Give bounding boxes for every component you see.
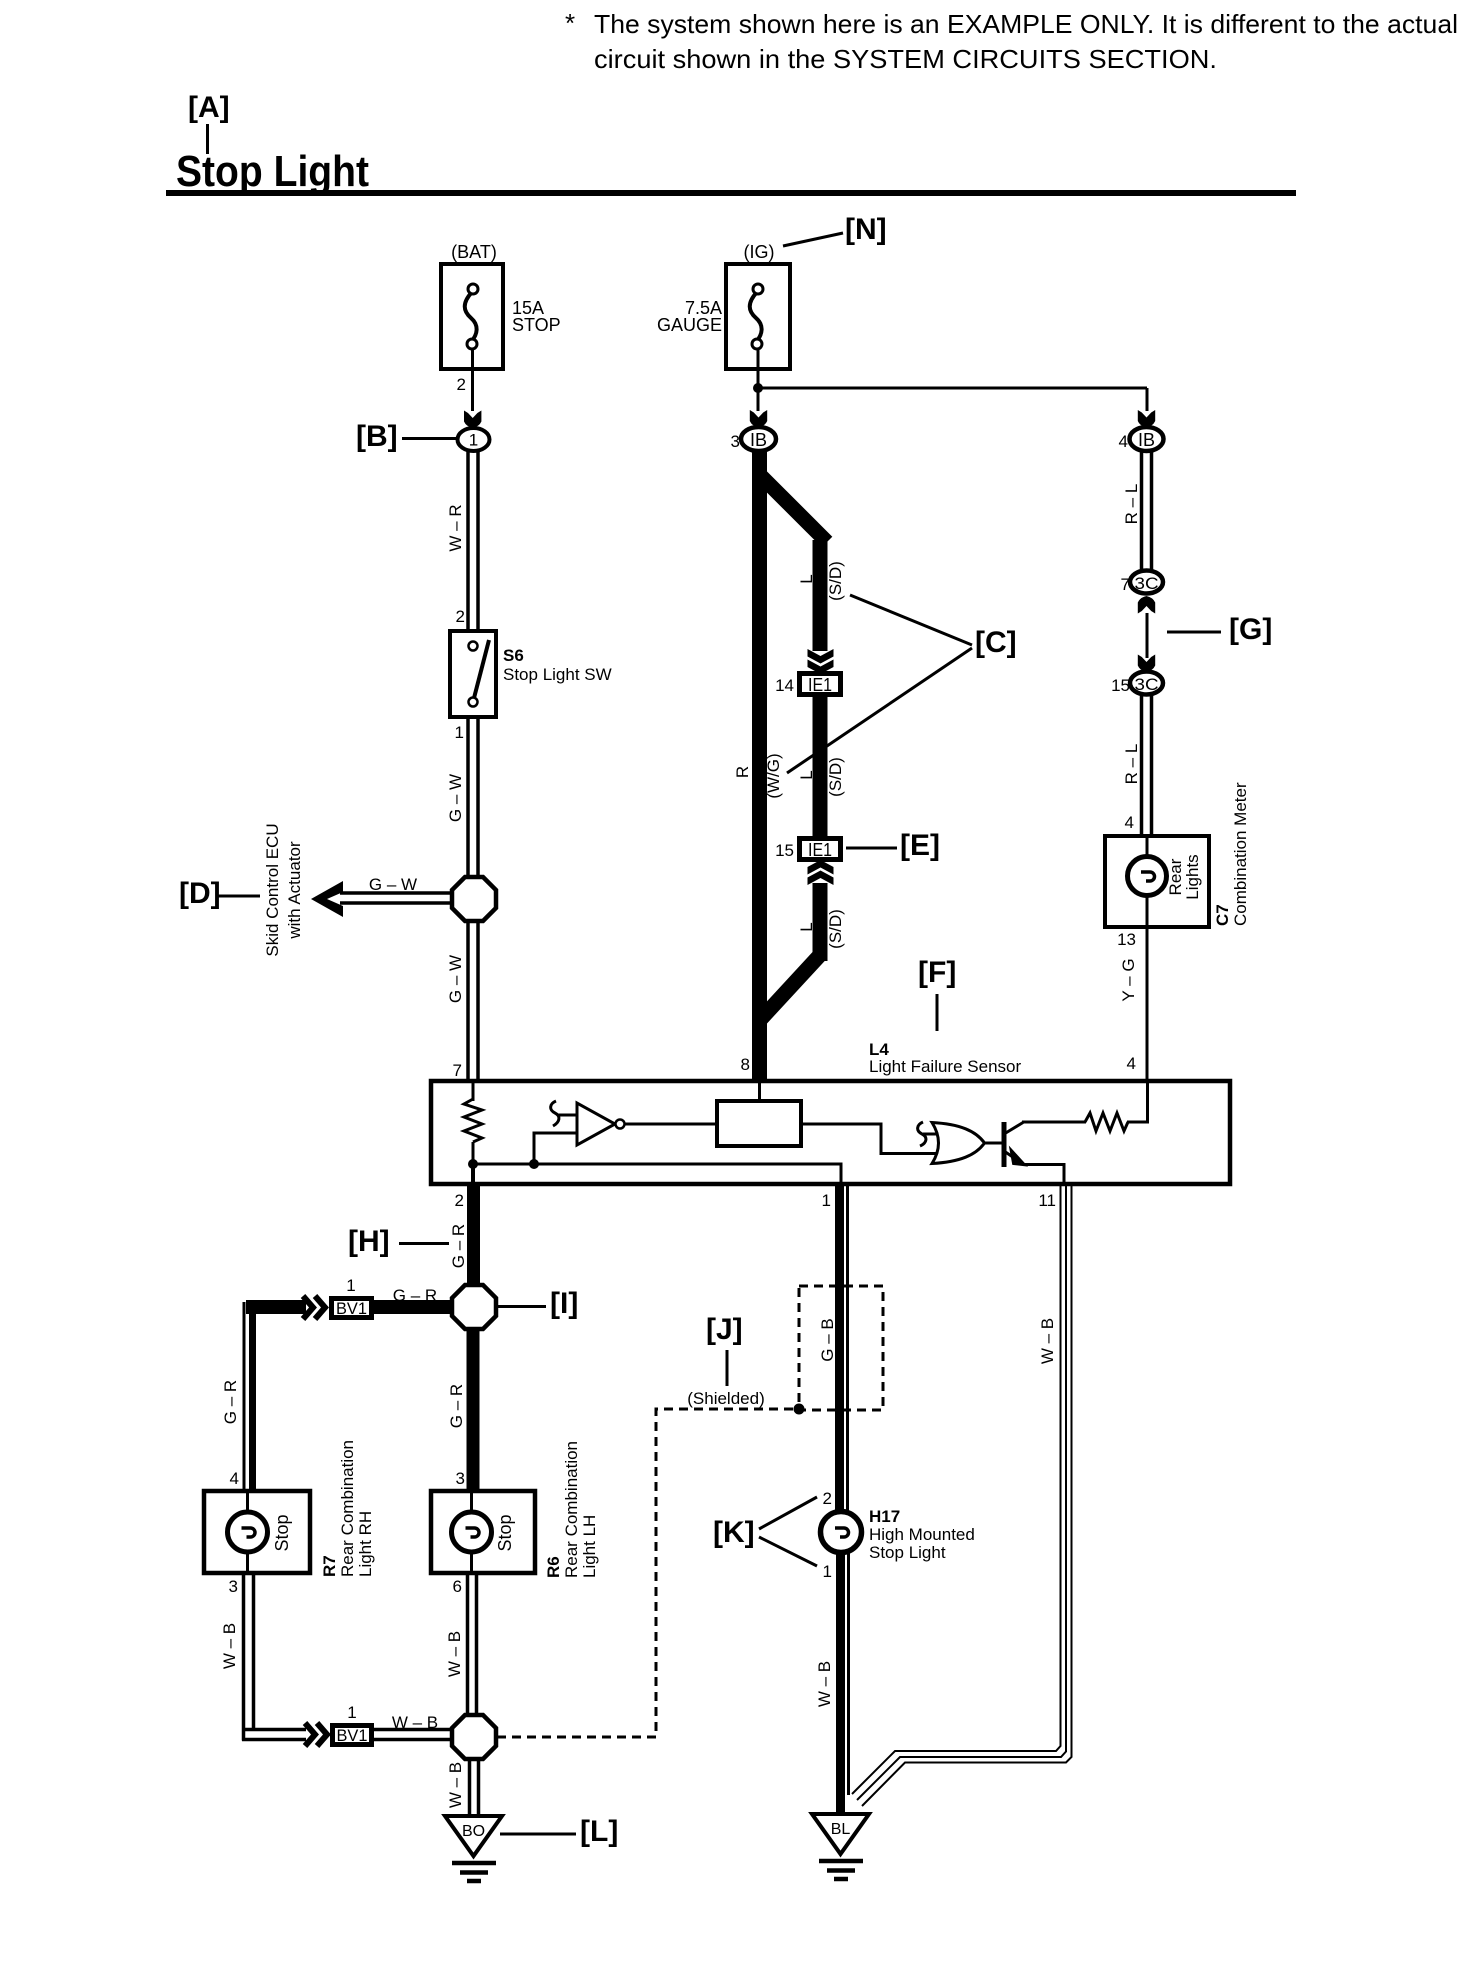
- connector 3C upper ellipse: [1130, 571, 1163, 594]
- label [E] pointer line: [846, 847, 897, 850]
- wire pin7 to resistor: [472, 1083, 475, 1101]
- switch S6 contacts: [469, 640, 490, 707]
- label [K] pointer lines: [759, 1497, 817, 1529]
- resistor R-out horizontal: [1085, 1113, 1128, 1131]
- fuse F1 box: [441, 264, 503, 369]
- connector 1 ellipse: [458, 428, 490, 451]
- wire W-R double from connector 1 to S6: [468, 451, 478, 633]
- label [L] pointer line: [500, 1833, 576, 1836]
- title underline: [166, 190, 1296, 196]
- svg-text:L: L: [797, 770, 816, 779]
- svg-text:1: 1: [347, 1703, 356, 1722]
- wire node A to pin 2: [471, 1164, 475, 1184]
- lamp H17 bulb: [821, 1512, 862, 1553]
- wire W-B triple from L4-11: [852, 1184, 1072, 1806]
- wire W-B double BV1 lower to junction I3: [374, 1730, 455, 1740]
- wire node A to pin 1: [473, 1164, 841, 1183]
- svg-text:G – B: G – B: [818, 1318, 837, 1361]
- wire W-B double corner to BV1 lower: [242, 1730, 306, 1740]
- wire R-L double from IB-4 to 3C-7: [1142, 451, 1152, 573]
- svg-text:G – R: G – R: [393, 1286, 437, 1305]
- wire resistor to node: [472, 1142, 475, 1164]
- wire resistor to pin 4: [1127, 1083, 1148, 1122]
- junction dot shield: [794, 1404, 805, 1415]
- svg-text:*: *: [565, 8, 575, 38]
- junction dot node B: [529, 1159, 539, 1169]
- wire emitter to pin 11: [1023, 1165, 1064, 1184]
- svg-text:[F]: [F]: [918, 956, 956, 989]
- svg-text:[I]: [I]: [550, 1287, 578, 1320]
- label [J] pointer line: [726, 1350, 729, 1386]
- svg-text:(S/D): (S/D): [826, 909, 845, 949]
- switch S6 box: [450, 631, 496, 717]
- svg-text:1: 1: [469, 431, 478, 450]
- svg-text:[A]: [A]: [188, 91, 230, 124]
- svg-text:W – B: W – B: [446, 1762, 465, 1808]
- svg-text:G – W: G – W: [446, 774, 465, 822]
- label [F] pointer line: [936, 994, 939, 1031]
- ground BO bars: [452, 1863, 496, 1881]
- svg-text:Stop: Stop: [272, 1514, 292, 1551]
- svg-text:(S/D): (S/D): [826, 757, 845, 797]
- wire fuse F2 output: [757, 348, 760, 411]
- svg-text:[L]: [L]: [580, 1815, 618, 1848]
- wire G-W double from junction I1 to sensor pin 7: [468, 920, 478, 1081]
- connector IE1 lower box: [797, 836, 843, 862]
- wire OR gate to transistor base: [984, 1142, 1002, 1145]
- svg-text:3C: 3C: [1135, 675, 1159, 694]
- wire squiggle to inverter: [557, 1114, 577, 1117]
- arrow to Skid Control ECU: [311, 881, 343, 917]
- svg-text:11: 11: [1038, 1191, 1056, 1210]
- flasher squiggle at OR gate: [918, 1122, 926, 1146]
- light failure sensor L4 box: [431, 1081, 1230, 1184]
- label [D] pointer line: [216, 895, 260, 898]
- svg-text:G – W: G – W: [369, 875, 417, 894]
- wire L (S/D) between IE1 connectors: [813, 697, 828, 836]
- label [N] pointer line: [783, 233, 843, 246]
- connector 3C lower ellipse: [1130, 672, 1163, 695]
- svg-text:(BAT): (BAT): [451, 242, 497, 262]
- svg-text:Stop Light: Stop Light: [176, 147, 369, 196]
- inverter U1: [577, 1103, 615, 1145]
- junction octagon I2: [452, 1285, 496, 1329]
- svg-text:Skid Control ECU: Skid Control ECU: [263, 823, 282, 956]
- svg-text:S6: S6: [503, 646, 524, 665]
- svg-text:2: 2: [823, 1489, 832, 1508]
- svg-text:IE1: IE1: [808, 840, 832, 860]
- svg-text:[D]: [D]: [179, 877, 221, 910]
- svg-text:8: 8: [741, 1055, 750, 1074]
- svg-text:(IG): (IG): [744, 242, 775, 262]
- svg-text:W – B: W – B: [220, 1623, 239, 1669]
- wire W-B from H17 to ground BL: [836, 1552, 845, 1816]
- svg-text:2: 2: [456, 607, 465, 626]
- svg-text:6: 6: [453, 1577, 462, 1596]
- svg-text:7: 7: [453, 1061, 462, 1080]
- wire right branch down: [1146, 388, 1149, 411]
- wire squiggle to OR gate: [923, 1133, 938, 1136]
- svg-text:1: 1: [822, 1191, 831, 1210]
- wire W-B double junction I3 to ground BO: [470, 1758, 479, 1817]
- svg-text:[B]: [B]: [356, 420, 398, 453]
- svg-text:2: 2: [457, 375, 466, 394]
- svg-text:W – B: W – B: [1038, 1318, 1057, 1364]
- wire G-B shielded thick from L4-1 to H17: [835, 1184, 844, 1514]
- wire G-W double to arrow: [340, 893, 453, 903]
- svg-text:GAUGE: GAUGE: [657, 315, 722, 335]
- wire inverter to relay box: [625, 1123, 717, 1126]
- connector BV1 upper box: [329, 1296, 374, 1320]
- svg-text:R – L: R – L: [1122, 484, 1141, 525]
- rear combination light R7 box: [204, 1491, 310, 1573]
- svg-text:3: 3: [731, 432, 740, 451]
- svg-text:Y – G: Y – G: [1119, 958, 1138, 1001]
- ground BL bars: [819, 1861, 863, 1879]
- svg-text:G – R: G – R: [449, 1224, 468, 1268]
- wire G-R thick to left corner: [246, 1300, 306, 1314]
- arrow into connector IB pin 4: [1138, 410, 1155, 428]
- rear combination light R6 box: [431, 1491, 535, 1573]
- svg-text:(W/G): (W/G): [764, 753, 783, 798]
- svg-text:R – L: R – L: [1122, 744, 1141, 785]
- svg-text:14: 14: [775, 676, 794, 695]
- arrow chevron down into 3C-15: [1138, 655, 1155, 673]
- wire relay box to OR gate: [801, 1124, 937, 1154]
- svg-text:H17: H17: [869, 1507, 900, 1526]
- wire L (S/D) branch upper diagonal: [759, 474, 827, 542]
- arrow chevrons into BV1 lower: [305, 1723, 327, 1746]
- wire G-W double from S6 to junction I1: [468, 717, 478, 880]
- wire L (S/D) branch vertical upper: [813, 540, 828, 651]
- wire G-R thick junction I2 to BV1: [374, 1300, 453, 1314]
- svg-text:Light LH: Light LH: [580, 1515, 599, 1578]
- wire R thick main from IB-3 to L4 pin 8: [752, 450, 767, 1081]
- svg-text:4: 4: [230, 1469, 239, 1488]
- label [H] pointer line: [399, 1242, 449, 1245]
- wire W-B double from R6 to junction I3: [468, 1573, 477, 1716]
- svg-text:[J]: [J]: [706, 1313, 743, 1346]
- junction dot node A: [468, 1159, 478, 1169]
- wire G-R thick junction I2 down to R6: [467, 1328, 480, 1492]
- svg-text:Stop Light SW: Stop Light SW: [503, 665, 612, 684]
- lamp R6 Stop bulb: [452, 1493, 492, 1571]
- shield dashed wire from junction I3: [497, 1409, 797, 1737]
- wire collector to resistor: [1022, 1121, 1086, 1124]
- svg-text:4: 4: [1119, 432, 1128, 451]
- lamp R7 Stop bulb: [228, 1493, 268, 1571]
- svg-text:3: 3: [456, 1469, 465, 1488]
- svg-text:R6: R6: [544, 1556, 563, 1578]
- svg-text:G – R: G – R: [447, 1384, 466, 1428]
- svg-text:[H]: [H]: [348, 1225, 390, 1258]
- svg-text:L: L: [797, 574, 816, 583]
- arrow chevrons into BV1 upper: [303, 1296, 325, 1319]
- svg-text:[N]: [N]: [845, 213, 887, 246]
- wire node B to inverter input: [534, 1133, 577, 1164]
- fuse F1 element: [465, 284, 478, 349]
- svg-text:L: L: [797, 922, 816, 931]
- flasher squiggle at inverter: [551, 1101, 559, 1126]
- wire L (S/D) branch vertical lower: [813, 883, 828, 961]
- shielded dashed box around G-B: [799, 1286, 883, 1410]
- svg-text:[C]: [C]: [975, 626, 1017, 659]
- svg-text:C7: C7: [1213, 904, 1232, 926]
- svg-text:R7: R7: [320, 1555, 339, 1577]
- junction octagon I1: [452, 877, 496, 921]
- wire single between 3C connectors: [1146, 613, 1149, 658]
- arrow into connector IB pin 3: [750, 410, 767, 428]
- svg-text:IB: IB: [750, 430, 767, 450]
- arrow double chevron out of IE1-15: [808, 860, 834, 885]
- arrow chevron up below 3C-7: [1138, 596, 1155, 614]
- svg-text:W – B: W – B: [815, 1661, 834, 1707]
- fuse F2 element: [750, 284, 763, 349]
- svg-text:Lights: Lights: [1183, 854, 1202, 899]
- svg-text:3C: 3C: [1135, 574, 1159, 593]
- svg-text:STOP: STOP: [512, 315, 561, 335]
- svg-text:G – R: G – R: [221, 1380, 240, 1424]
- junction octagon I3: [452, 1715, 496, 1759]
- wire L (S/D) branch lower diagonal: [760, 955, 820, 1020]
- svg-text:1: 1: [346, 1276, 355, 1295]
- svg-text:Stop Light: Stop Light: [869, 1543, 946, 1562]
- svg-text:(S/D): (S/D): [826, 561, 845, 601]
- label [G] pointer line: [1167, 631, 1221, 634]
- label [I] pointer line: [498, 1305, 546, 1308]
- svg-text:4: 4: [1127, 1054, 1136, 1073]
- wire W-B double from R7 down: [244, 1573, 254, 1741]
- svg-text:15: 15: [775, 841, 794, 860]
- svg-text:4: 4: [1125, 813, 1134, 832]
- label [B] pointer line: [402, 437, 457, 440]
- connector IB left ellipse: [741, 427, 776, 451]
- ground BL triangle: [812, 1814, 869, 1854]
- svg-text:[E]: [E]: [900, 829, 940, 862]
- svg-text:IB: IB: [1138, 430, 1155, 450]
- svg-text:BV1: BV1: [337, 1726, 368, 1745]
- svg-text:Rear Combination: Rear Combination: [562, 1441, 581, 1578]
- svg-text:2: 2: [455, 1191, 464, 1210]
- transistor Q1: [1002, 1122, 1024, 1167]
- svg-text:15: 15: [1111, 676, 1130, 695]
- wire pin 8 to relay box: [758, 1083, 761, 1101]
- svg-text:R: R: [733, 766, 752, 778]
- arrow double chevron into IE1-14: [808, 649, 834, 674]
- lamp Rear Lights bulb: [1128, 838, 1167, 925]
- connector IE1 upper box: [797, 671, 843, 697]
- wire R-L double from 3C-15 to C7: [1142, 695, 1152, 838]
- svg-text:The system shown here is an EX: The system shown here is an EXAMPLE ONLY…: [594, 9, 1458, 39]
- wire G-R thick+thin down to R7: [249, 1300, 256, 1492]
- resistor R-in vertical: [464, 1099, 482, 1142]
- svg-text:3: 3: [229, 1577, 238, 1596]
- label [A] pointer line: [206, 124, 209, 154]
- connector IB right ellipse: [1130, 427, 1164, 451]
- svg-text:Light Failure Sensor: Light Failure Sensor: [869, 1057, 1021, 1076]
- svg-text:G – W: G – W: [446, 955, 465, 1003]
- combination meter C7 box: [1105, 836, 1209, 927]
- svg-text:W – R: W – R: [446, 504, 465, 551]
- svg-text:W – B: W – B: [445, 1631, 464, 1677]
- svg-text:BL: BL: [831, 1821, 851, 1838]
- svg-text:[K]: [K]: [713, 1516, 755, 1549]
- svg-text:IE1: IE1: [808, 675, 832, 695]
- wire fuse F1 output: [471, 348, 474, 411]
- relay box K1: [717, 1101, 801, 1146]
- arrow into connector 1: [464, 411, 481, 429]
- svg-text:High Mounted: High Mounted: [869, 1525, 975, 1544]
- wire from junction to right branch: [758, 387, 1147, 390]
- svg-text:Light RH: Light RH: [356, 1511, 375, 1577]
- svg-text:Rear Combination: Rear Combination: [338, 1440, 357, 1577]
- svg-text:with Actuator: with Actuator: [285, 841, 304, 940]
- wire Y-G single from C7 to L4 pin 4: [1146, 927, 1149, 1081]
- svg-text:[G]: [G]: [1229, 613, 1272, 646]
- svg-text:13: 13: [1117, 930, 1136, 949]
- svg-text:BV1: BV1: [336, 1299, 367, 1318]
- fuse F2 box: [726, 264, 790, 369]
- label [C] pointer lines: [850, 595, 972, 645]
- svg-text:BO: BO: [462, 1823, 485, 1840]
- svg-text:circuit shown in the SYSTEM CI: circuit shown in the SYSTEM CIRCUITS SEC…: [594, 44, 1217, 74]
- svg-text:(Shielded): (Shielded): [687, 1389, 765, 1408]
- OR gate U2: [932, 1123, 985, 1164]
- wire G-R thick from L4-2 to junction I2: [467, 1184, 480, 1288]
- svg-text:Combination Meter: Combination Meter: [1231, 782, 1250, 926]
- connector BV1 lower box: [330, 1723, 374, 1747]
- junction dot fuse F2: [753, 383, 763, 393]
- ground BO triangle: [445, 1816, 502, 1856]
- svg-text:Stop: Stop: [495, 1514, 515, 1551]
- svg-text:1: 1: [823, 1562, 832, 1581]
- svg-text:1: 1: [455, 723, 464, 742]
